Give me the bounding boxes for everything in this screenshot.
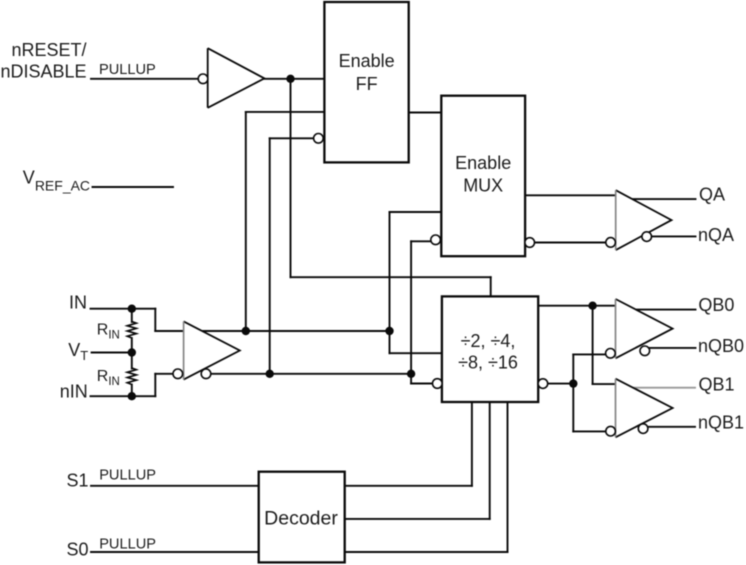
svg-text:nRESET/: nRESET/ [12,40,87,60]
wire nIN input [91,395,156,397]
wire nQB vertical bus [572,354,574,431]
resistor RIN2 [127,368,136,385]
svg-text:÷2, ÷4,: ÷2, ÷4, [461,331,516,351]
junction IN resistor node [128,305,136,313]
resistor RIN1 [127,322,136,339]
junction reset node [286,75,294,83]
bubble Enable FF inverted input [314,134,324,144]
buffer U5 QB1 output driver [616,379,673,438]
bubble buffer U1 input [198,74,208,84]
wire Enable FF inverted input vertical [269,138,271,373]
svg-text:QB1: QB1 [699,375,735,395]
svg-text:PULLUP: PULLUP [99,536,156,552]
buffer U3 QA output driver [616,190,672,250]
wire Enable MUX inverted select vertical [410,241,412,383]
wire Enable MUX select input horizontal [390,211,442,213]
wire nQB0 output [646,347,696,349]
wire Enable FF data input vertical [245,112,247,331]
wire Enable FF output to Enable MUX [409,112,442,114]
wire Enable MUX inverted output to QA buffer [534,242,606,244]
bubble divider inverted output [538,379,548,389]
svg-text:PULLUP: PULLUP [99,62,156,78]
wire Enable MUX select vertical [389,212,391,353]
bubble QA buffer inverting input [606,238,616,248]
wire VT input [92,352,132,354]
wire reset drop into divider top [490,277,492,296]
wire decoder output 3 vertical [507,402,509,552]
svg-text:MUX: MUX [463,175,503,195]
wire buffer U1 output to Enable FF [264,78,324,80]
junction QB true node [588,302,596,310]
junction FF input on IN bus [242,327,250,335]
svg-text:nQA: nQA [698,225,734,245]
junction nIN bus end [407,370,415,378]
wire IN input [91,308,156,310]
wire QB1 output gray [633,387,696,389]
bubble divider inverted clock input [433,379,443,389]
wire reset vertical drop from junction [290,79,292,277]
svg-text:nIN: nIN [60,382,88,402]
wire decoder output 1 vertical [471,402,473,486]
wire VREF_AC stub [93,186,174,188]
wire decoder output 2 vertical [489,402,491,519]
bubble Enable MUX inverted select input [431,235,441,245]
wire divider inverted clock input [411,383,433,385]
wire nIN jog up [154,374,156,396]
wire divider inverted output [548,383,574,385]
wire into QB1 buffer input [593,383,616,385]
wire nIN into buffer U2 bubble [155,373,173,375]
svg-text:IN: IN [69,293,87,313]
svg-text:FF: FF [356,74,378,94]
wire decoder output 1 horizontal [345,485,472,487]
svg-text:QA: QA [699,185,725,205]
wire S0 input [91,551,259,553]
wire RIN2 bottom lead [131,385,133,397]
wire IN into buffer U2 [155,330,183,332]
junction IN bus end [385,327,393,335]
wire RIN1 top lead [131,309,133,322]
bubble QB0 buffer inverting input [606,349,616,359]
svg-text:S1: S1 [67,471,89,491]
svg-text:÷8, ÷16: ÷8, ÷16 [458,352,518,372]
wire S1 input [91,485,259,487]
svg-text:nDISABLE: nDISABLE [1,62,87,82]
wire decoder output 3 horizontal [345,551,508,553]
bubble QB0 buffer inverted output [640,346,650,356]
junction VT resistor node [128,348,136,356]
buffer U4 QB0 output driver [616,299,673,358]
svg-text:S0: S0 [67,540,89,560]
bubble buffer U2 inverting input [173,369,183,379]
wire nRESET input to buffer [91,78,199,80]
wire Enable FF inverted input horizontal [270,137,314,139]
svg-text:nQB0: nQB0 [698,336,744,356]
wire decoder output 2 horizontal [345,518,490,520]
wire Enable MUX output to QA buffer [525,194,616,196]
wire QA output [632,198,695,200]
wire divider clock input [390,352,442,354]
svg-text:Enable: Enable [339,51,395,71]
svg-text:nQB1: nQB1 [698,413,744,433]
bubble QB1 buffer inverting input [606,426,616,436]
bubble QB1 buffer inverted output [638,424,648,434]
wire divider output to QB0 buffer [538,305,615,307]
wire buffer U2 true output bus [202,330,390,332]
block Enable MUX [441,96,525,257]
wire reset horizontal run to divider [291,276,491,278]
wire nQA output [649,235,696,237]
junction nIN resistor node [128,392,136,400]
buffer U1 nRESET inverter [208,48,265,108]
svg-text:Enable: Enable [455,153,511,173]
wire nQB1 output [645,426,695,428]
buffer U2 input differential buffer [184,321,240,379]
wire QB0 output [636,309,696,311]
wire RIN1 to VT node [131,338,133,369]
block Enable FF [324,2,408,162]
svg-text:PULLUP: PULLUP [99,467,156,483]
wire IN jog down [154,309,156,331]
junction FF inverted input on nIN bus [266,370,274,378]
wire Enable MUX inverted select horizontal [411,240,431,242]
wire to QB0 inverted input bubble [573,353,606,355]
wire buffer U2 inverted output bus [206,373,411,375]
junction QB inverted node [569,379,577,387]
bubble buffer U2 inverted output [201,369,211,379]
bubble QA buffer inverted output [642,232,652,242]
wire QB node vertical to QB1 [592,306,594,384]
bubble Enable MUX inverted output [525,238,535,248]
wire to QB1 inverted input bubble [573,430,606,432]
block Decoder [259,472,345,563]
wire Enable FF data input horizontal [246,111,325,113]
block divider [442,296,538,402]
svg-text:QB0: QB0 [698,295,734,315]
svg-text:Decoder: Decoder [264,508,338,530]
